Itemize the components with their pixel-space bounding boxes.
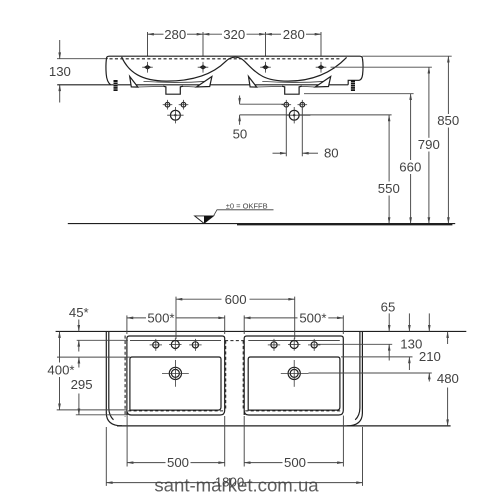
svg-text:280: 280 bbox=[164, 27, 186, 42]
dimension 320 bbox=[203, 33, 222, 35]
svg-text:500*: 500* bbox=[147, 311, 174, 326]
svg-text:400*: 400* bbox=[47, 362, 74, 377]
dimension 50: arrows bbox=[239, 96, 241, 105]
svg-text:280: 280 bbox=[283, 27, 305, 42]
drain fitting circles right basin bbox=[282, 100, 311, 124]
hidden dashed body outline left bbox=[124, 336, 126, 418]
dimension 80: extension lines bbox=[285, 109, 287, 157]
right bowl underside details bbox=[249, 77, 331, 95]
hull lines bbox=[138, 85, 163, 88]
datum symbol bbox=[195, 210, 274, 224]
drain right bowl bbox=[281, 360, 309, 387]
left fixing bolt bbox=[114, 80, 118, 91]
dimension 790: extension + line bbox=[331, 66, 432, 68]
svg-text:130: 130 bbox=[49, 64, 71, 79]
svg-text:480: 480 bbox=[437, 371, 459, 386]
svg-text:65: 65 bbox=[381, 300, 396, 315]
left wedge bbox=[130, 77, 138, 88]
svg-text:320: 320 bbox=[223, 27, 245, 42]
basin body: dashed rim line bbox=[110, 58, 342, 60]
wall line bbox=[56, 330, 467, 332]
drain box bbox=[163, 86, 183, 94]
drain left bowl bbox=[162, 360, 189, 387]
dashed hidden bottoms inside bowls bbox=[128, 410, 223, 412]
right bowl inner bbox=[248, 357, 340, 410]
faucet holes right bowl bbox=[268, 338, 321, 351]
left bowl underside details bbox=[130, 77, 212, 95]
right bowl unit bbox=[244, 336, 343, 415]
dimension 660: extension + line bbox=[304, 93, 414, 95]
front edge + 480 extension bbox=[117, 425, 451, 427]
svg-text:210: 210 bbox=[419, 349, 441, 364]
dimension 600 bbox=[175, 297, 177, 339]
dimension 130 plan bbox=[408, 313, 410, 331]
dimension 500* left bbox=[126, 315, 128, 334]
inner bowl bottom line right bbox=[262, 81, 327, 82]
dimension 210 bbox=[428, 313, 430, 331]
svg-text:50: 50 bbox=[233, 127, 248, 142]
basin body: top edge bbox=[106, 56, 362, 59]
faucet holes left bowl bbox=[150, 338, 202, 351]
dimension 850: extension + line bbox=[362, 55, 451, 57]
dimension 400* bbox=[59, 332, 61, 363]
dimension 500 bottom right bbox=[243, 416, 245, 467]
drain fitting circles left basin bbox=[163, 100, 189, 124]
svg-text:660: 660 bbox=[399, 160, 421, 175]
dimension 280 left: lines with arrows bbox=[148, 33, 164, 35]
svg-text:80: 80 bbox=[324, 146, 339, 161]
outer basin right edge bbox=[347, 331, 363, 426]
tap deck line left bowl bbox=[130, 339, 221, 341]
svg-text:500*: 500* bbox=[299, 311, 326, 326]
dimension 550: extension + line bbox=[388, 115, 390, 182]
svg-text:±0 = OKFFB: ±0 = OKFFB bbox=[226, 202, 268, 211]
basin body: left profile bbox=[106, 59, 111, 85]
basin body: right profile bbox=[359, 59, 363, 81]
dimension 280 right bbox=[266, 33, 282, 35]
left bowl curve bbox=[122, 57, 236, 81]
svg-text:45*: 45* bbox=[69, 305, 89, 320]
dimension 280 left: extension lines bbox=[147, 32, 149, 56]
left bowl unit bbox=[127, 336, 225, 415]
fixing hole cross markers (4) bbox=[144, 64, 325, 71]
svg-text:600: 600 bbox=[225, 292, 247, 307]
dimension 50: extension lines bbox=[240, 103, 284, 105]
right fixing bolt bbox=[351, 80, 355, 91]
basin underside line bbox=[57, 84, 348, 86]
hidden dashed lines middle gap bbox=[225, 341, 227, 411]
dimension 500 bottom left bbox=[126, 416, 128, 467]
svg-text:790: 790 bbox=[418, 137, 440, 152]
right bowl curve bbox=[235, 57, 346, 81]
dimension 1800 bbox=[105, 427, 107, 486]
dimension 80: arrows bbox=[273, 152, 287, 154]
svg-text:sant-market.com.ua: sant-market.com.ua bbox=[154, 474, 319, 495]
inner bowl bottom line left bbox=[144, 81, 209, 82]
dimension 130 height: extension line top bbox=[57, 58, 108, 60]
dimension 130: arrows bbox=[59, 40, 61, 59]
outer basin left edge bbox=[106, 331, 122, 426]
dimension 480 bbox=[447, 332, 449, 344]
dimension 500* right bbox=[243, 315, 245, 334]
right wedge bbox=[196, 77, 212, 88]
floor line bbox=[68, 223, 455, 225]
dimension 295 bbox=[78, 357, 80, 367]
svg-text:295: 295 bbox=[71, 377, 93, 392]
svg-text:850: 850 bbox=[437, 113, 459, 128]
basin underside right step bbox=[348, 80, 359, 85]
tap deck line right bowl bbox=[248, 339, 339, 341]
left bowl inner bbox=[130, 357, 221, 410]
svg-text:550: 550 bbox=[378, 181, 400, 196]
svg-text:500: 500 bbox=[284, 455, 306, 470]
svg-text:500: 500 bbox=[167, 455, 189, 470]
